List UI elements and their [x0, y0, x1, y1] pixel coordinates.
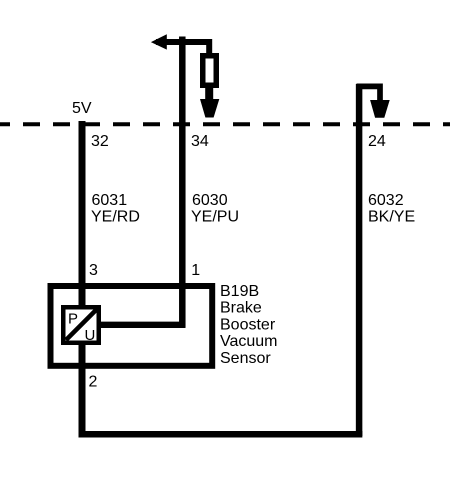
svg-text:6032: 6032: [368, 192, 404, 209]
wire: 5V supply from pin 32 down to sensor: [79, 121, 86, 309]
svg-text:3: 3: [89, 262, 98, 279]
svg-text:U: U: [85, 327, 96, 344]
svg-text:6030: 6030: [192, 192, 228, 209]
svg-text:P: P: [68, 310, 78, 327]
svg-text:YE/PU: YE/PU: [191, 208, 239, 225]
wire: top horizontal link to left arrow and resistor: [156, 42, 209, 54]
svg-text:6031: 6031: [92, 192, 128, 209]
dashed module boundary line: [0, 122, 450, 126]
resistor (pull-up): [203, 56, 217, 86]
connector arrow into module pin 24: [370, 100, 390, 118]
svg-text:24: 24: [368, 133, 386, 150]
svg-text:Brake: Brake: [220, 300, 262, 317]
wire: signal 6030 vertical run (pin 34 to sensor pin 1): [179, 37, 186, 328]
transducer diagonal: [66, 308, 98, 340]
pressure transducer symbol P/U: [63, 307, 99, 343]
arrow: continues to other circuit (left): [151, 34, 167, 49]
svg-text:B19B: B19B: [220, 283, 259, 300]
svg-text:Booster: Booster: [220, 316, 276, 333]
wire: ground 6032 vertical run (pin 24 down to splice): [356, 84, 363, 436]
svg-text:Sensor: Sensor: [220, 350, 271, 367]
wire: bottom ground run: [79, 431, 363, 438]
wire: stub below resistor: [205, 85, 213, 100]
connector arrow into module pin 34: [200, 99, 219, 118]
svg-text:5V: 5V: [72, 100, 92, 117]
svg-text:32: 32: [91, 133, 109, 150]
component box B19B brake booster vacuum sensor: [51, 286, 213, 366]
wire: internal link transducer to pin 1: [100, 322, 186, 328]
svg-text:YE/RD: YE/RD: [91, 208, 140, 225]
svg-text:1: 1: [191, 262, 200, 279]
svg-text:BK/YE: BK/YE: [368, 208, 415, 225]
svg-text:Vacuum: Vacuum: [220, 333, 278, 350]
svg-text:34: 34: [191, 133, 209, 150]
wire: pin 2 down to bottom run: [79, 343, 86, 438]
wire: top elbow to connector arrow pin 24: [357, 86, 381, 100]
svg-text:2: 2: [89, 374, 98, 391]
